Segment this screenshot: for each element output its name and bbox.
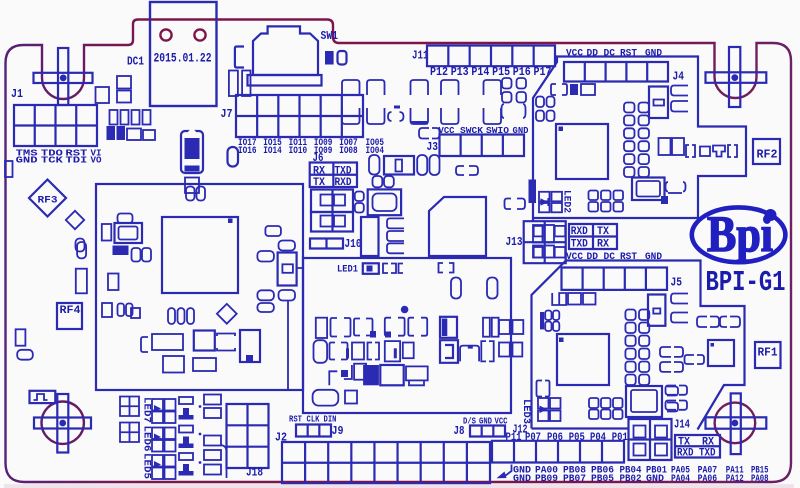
svg-text:GND: GND xyxy=(646,473,664,485)
clip component xyxy=(181,129,203,173)
table J6 RX TXD xyxy=(310,152,357,189)
chip U6 small xyxy=(708,340,734,366)
svg-text:PB07: PB07 xyxy=(563,473,586,485)
LED5 LED6 LED7 group xyxy=(120,397,194,480)
header J2 xyxy=(275,431,490,484)
svg-text:P12: P12 xyxy=(430,66,448,79)
svg-text:RXD: RXD xyxy=(571,226,588,238)
header J18 xyxy=(227,404,269,480)
capacitor pair below bracket xyxy=(229,71,238,97)
pulse logo xyxy=(30,391,56,403)
svg-text:P15: P15 xyxy=(492,66,510,79)
connector DC1 xyxy=(127,2,217,106)
svg-text:P04: P04 xyxy=(590,432,606,444)
svg-text:RF4: RF4 xyxy=(60,305,81,317)
module outline radio xyxy=(303,258,511,413)
svg-text:RF2: RF2 xyxy=(757,149,778,162)
svg-text:TCK: TCK xyxy=(41,154,63,165)
svg-text:TXD: TXD xyxy=(335,166,352,178)
svg-text:J7: J7 xyxy=(221,107,233,121)
svg-text:GND: GND xyxy=(645,49,662,60)
antenna RF3 xyxy=(29,180,66,217)
header J12 xyxy=(492,423,628,463)
pills left of component xyxy=(257,226,281,312)
svg-text:LED1: LED1 xyxy=(337,264,358,276)
svg-text:LED6: LED6 xyxy=(141,426,153,452)
svg-text:IO10: IO10 xyxy=(289,145,308,157)
svg-text:SW1: SW1 xyxy=(321,30,339,43)
svg-text:DC1: DC1 xyxy=(127,56,144,69)
antenna RF2 xyxy=(753,139,780,164)
svg-text:RF1: RF1 xyxy=(758,347,778,360)
svg-text:PB05: PB05 xyxy=(591,473,614,485)
svg-text:RST: RST xyxy=(289,415,302,425)
bracket pair right of U3 xyxy=(505,199,526,210)
header J8 xyxy=(454,417,508,439)
parts right of J7 xyxy=(369,128,440,175)
svg-text:GND: GND xyxy=(513,473,531,485)
chip U5 xyxy=(557,334,609,385)
radio module passives row3 xyxy=(329,364,427,386)
header J9 xyxy=(289,415,344,439)
radio module passives row2 xyxy=(314,340,523,363)
svg-text:P14: P14 xyxy=(471,66,489,79)
svg-text:J1: J1 xyxy=(11,87,23,101)
pill below J7 xyxy=(228,147,239,167)
crystal Y1 xyxy=(355,189,401,215)
component pair below J6 xyxy=(311,190,353,232)
shadow strip below board xyxy=(4,484,794,488)
svg-text:RXD: RXD xyxy=(335,177,352,189)
LED2 xyxy=(539,190,573,213)
svg-text:PA12: PA12 xyxy=(726,473,744,485)
svg-text:TX: TX xyxy=(313,177,325,189)
header J10 xyxy=(310,238,362,251)
svg-text:2015.01.22: 2015.01.22 xyxy=(154,52,212,66)
passives in J5 block xyxy=(540,293,740,419)
svg-text:TXD: TXD xyxy=(571,239,588,251)
svg-text:J5: J5 xyxy=(671,276,683,290)
svg-text:TXD: TXD xyxy=(699,448,716,460)
svg-text:RX: RX xyxy=(597,239,609,251)
mounting hole bottom-left xyxy=(34,394,91,453)
svg-text:RST: RST xyxy=(620,252,637,263)
bracket pair below J3 xyxy=(456,166,478,175)
svg-text:LED2: LED2 xyxy=(561,190,573,213)
svg-text:J3: J3 xyxy=(427,140,439,154)
svg-text:GND: GND xyxy=(16,154,38,165)
svg-text:DIN: DIN xyxy=(324,415,337,425)
radio module passives row4 xyxy=(313,390,357,406)
module outline J5 block xyxy=(532,261,745,430)
svg-text:PA08: PA08 xyxy=(751,473,769,485)
table J14 TX RX xyxy=(675,435,720,460)
svg-text:J4: J4 xyxy=(673,70,685,84)
header J3 xyxy=(427,125,529,156)
passives in main module xyxy=(102,187,260,373)
module outline main xyxy=(96,184,303,390)
svg-text:PB09: PB09 xyxy=(535,473,558,485)
antenna RF4 xyxy=(57,303,82,329)
logo Bpi xyxy=(692,207,786,263)
svg-text:PB02: PB02 xyxy=(620,473,642,485)
svg-text:TDI: TDI xyxy=(65,154,87,165)
header J11 xyxy=(412,46,555,80)
parts below J4 block xyxy=(533,225,554,258)
header J7 xyxy=(221,95,385,157)
svg-text:CLK: CLK xyxy=(307,415,320,425)
svg-text:IO14: IO14 xyxy=(263,145,282,157)
svg-text:GND: GND xyxy=(645,252,662,263)
radio module passives row1 xyxy=(316,317,524,338)
mounting hole top-left xyxy=(34,48,93,105)
capacitor row top middle xyxy=(342,80,501,125)
component at J13 xyxy=(524,221,566,263)
svg-text:RST: RST xyxy=(620,49,637,60)
cluster right of J1 xyxy=(107,110,156,140)
svg-text:IO08: IO08 xyxy=(339,145,358,157)
svg-text:VO: VO xyxy=(91,154,102,165)
LED1 xyxy=(337,263,454,276)
svg-text:P16: P16 xyxy=(513,66,531,79)
svg-text:DD: DD xyxy=(587,49,599,60)
svg-text:DD: DD xyxy=(587,252,599,263)
dot in radio module xyxy=(401,306,409,314)
svg-text:P07: P07 xyxy=(525,432,541,444)
svg-text:J14: J14 xyxy=(674,418,690,432)
pills above crystal xyxy=(373,176,383,187)
svg-text:RXD: RXD xyxy=(677,448,694,460)
svg-text:J13: J13 xyxy=(506,235,523,249)
resistor column xyxy=(199,395,221,475)
header J5 xyxy=(562,252,683,290)
svg-text:J10: J10 xyxy=(345,238,362,251)
svg-text:LED7: LED7 xyxy=(141,397,153,423)
header J1 xyxy=(11,87,102,165)
header J4 xyxy=(564,49,684,84)
left column parts xyxy=(16,242,87,360)
rect on left border xyxy=(5,161,13,177)
mounting hole bottom-right xyxy=(706,393,767,454)
svg-text:TX: TX xyxy=(597,226,609,238)
switch SW1 xyxy=(248,26,339,85)
chip U2 xyxy=(556,124,608,179)
svg-text:LED3: LED3 xyxy=(520,399,532,424)
svg-text:J18: J18 xyxy=(246,466,263,480)
svg-text:P13: P13 xyxy=(451,66,469,79)
svg-text:PA06: PA06 xyxy=(698,473,718,485)
svg-text:P06: P06 xyxy=(547,432,563,444)
svg-text:PA04: PA04 xyxy=(671,473,690,485)
wire to J18 xyxy=(221,445,227,478)
pill below RF3 xyxy=(76,239,85,252)
svg-text:BPI-G1: BPI-G1 xyxy=(706,266,786,299)
component with wire xyxy=(278,241,304,391)
pills in radio module xyxy=(451,278,498,299)
rect below clip xyxy=(185,178,199,194)
capacitor group below DC1 xyxy=(96,87,110,103)
svg-text:DC: DC xyxy=(604,252,616,263)
filled bar on J4 edge xyxy=(529,180,537,204)
antenna RF1 xyxy=(755,342,781,368)
svg-text:IO16: IO16 xyxy=(238,145,257,157)
svg-text:J9: J9 xyxy=(332,424,344,438)
bracket left of SW1 xyxy=(235,47,244,68)
LED3 xyxy=(520,381,561,425)
tilted part near RF3 xyxy=(66,211,84,229)
module outline J4 block xyxy=(533,57,746,222)
svg-text:P05: P05 xyxy=(569,432,585,444)
svg-text:DC: DC xyxy=(604,49,616,60)
table J13 RXD TX xyxy=(569,224,617,251)
svg-text:RF3: RF3 xyxy=(38,195,58,207)
arrow to GND xyxy=(503,465,512,478)
component at J14 xyxy=(629,418,691,461)
svg-text:LED5: LED5 xyxy=(141,453,153,479)
svg-text:J8: J8 xyxy=(454,424,465,438)
inductor and transistors xyxy=(361,217,404,256)
svg-text:RX: RX xyxy=(313,166,325,178)
svg-text:VCC: VCC xyxy=(566,252,583,263)
passives in J4 block xyxy=(536,84,737,212)
chip U1 xyxy=(162,217,238,293)
parts right of SW1 xyxy=(325,51,334,65)
pill cluster top middle xyxy=(502,78,527,118)
svg-text:Bpi: Bpi xyxy=(707,207,773,263)
mounting hole top-right xyxy=(706,47,767,107)
svg-text:VCC: VCC xyxy=(566,49,583,60)
bottom pin labels xyxy=(513,464,769,485)
svg-text:P01: P01 xyxy=(612,432,628,444)
chip U3 center xyxy=(429,197,486,256)
